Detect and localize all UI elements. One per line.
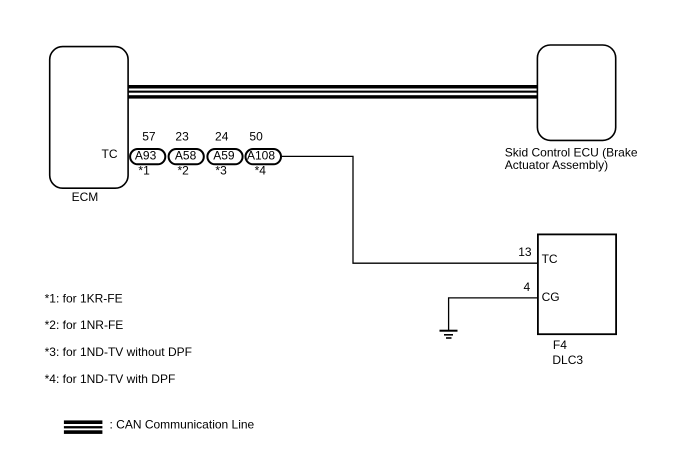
connector A59: [207, 148, 242, 164]
wire from connector A108 to DLC3 pin TC: [282, 156, 537, 263]
Skid Control ECU box: [537, 45, 615, 140]
connector A108: [246, 148, 282, 164]
svg-text:50: 50: [249, 129, 263, 143]
svg-text:*3: for 1ND-TV without DPF: *3: for 1ND-TV without DPF: [45, 345, 192, 359]
svg-text:ECM: ECM: [72, 190, 99, 204]
svg-text:*1: *1: [138, 164, 150, 178]
svg-text:*2: for 1NR-FE: *2: for 1NR-FE: [45, 318, 124, 332]
svg-text:A108: A108: [247, 148, 275, 162]
svg-text:A93: A93: [135, 148, 157, 162]
svg-text:4: 4: [524, 280, 531, 294]
legend CAN line symbol: [64, 420, 103, 434]
Skid Control ECU label: [505, 145, 638, 172]
svg-text:*4: for 1ND-TV with DPF: *4: for 1ND-TV with DPF: [45, 372, 176, 386]
svg-text:*1: for 1KR-FE: *1: for 1KR-FE: [45, 291, 123, 305]
ECM box: [50, 47, 128, 189]
svg-text:24: 24: [215, 129, 229, 143]
svg-text:*2: *2: [178, 164, 190, 178]
svg-text:13: 13: [518, 245, 532, 259]
svg-text:CG: CG: [542, 290, 560, 304]
svg-text:*3: *3: [215, 164, 227, 178]
connector A93: [130, 148, 165, 164]
ground symbol: [440, 330, 458, 339]
svg-text:TC: TC: [542, 252, 558, 266]
svg-text:A58: A58: [175, 148, 197, 162]
DLC3 box: [538, 234, 616, 334]
svg-text:57: 57: [142, 129, 156, 143]
connector A58: [169, 148, 204, 164]
CAN communication bus line (thick-thin-thick): [128, 85, 538, 99]
svg-text:F4: F4: [553, 338, 567, 352]
svg-text:DLC3: DLC3: [552, 353, 583, 367]
svg-text:Actuator Assembly): Actuator Assembly): [505, 158, 608, 172]
svg-text:A59: A59: [213, 148, 235, 162]
wire from DLC3 pin CG to ground: [449, 298, 537, 330]
svg-text:: CAN Communication Line: : CAN Communication Line: [110, 417, 255, 431]
svg-text:TC: TC: [102, 147, 118, 161]
svg-text:23: 23: [175, 129, 189, 143]
svg-text:*4: *4: [255, 164, 267, 178]
